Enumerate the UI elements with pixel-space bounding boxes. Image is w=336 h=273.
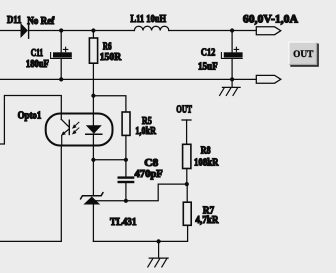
svg-text:D11: D11 — [7, 15, 22, 26]
wire OUT stem to R8 — [186, 120, 188, 144]
wire C12 top lead — [231, 31, 233, 53]
wire bus2 — [0, 78, 232, 80]
svg-text:R8: R8 — [201, 145, 211, 156]
wire opto input loop (left) — [0, 96, 61, 145]
svg-text:No Ref: No Ref — [27, 16, 55, 27]
wire top bus right segment — [169, 30, 256, 32]
node junction LED cathode / feedback — [91, 158, 95, 162]
output arrow bottom — [256, 75, 281, 83]
svg-text:R6: R6 — [103, 41, 112, 52]
svg-text:OUT: OUT — [176, 105, 192, 116]
output arrow top — [256, 27, 281, 35]
wire TL431 anode down — [92, 205, 94, 242]
wire bottom-left rail — [0, 240, 61, 242]
shunt regulator TL431 — [81, 193, 103, 205]
wire C11 bottom lead — [60, 59, 62, 80]
svg-text:C12: C12 — [201, 47, 216, 58]
node junction bus2 / C12 / ground — [230, 77, 234, 81]
ground under C12 — [220, 79, 241, 95]
wire R7 top lead — [186, 184, 188, 202]
svg-text:OUT: OUT — [293, 50, 314, 60]
wire C8 bottom lead — [125, 183, 127, 201]
node junction top bus / C12 — [230, 28, 234, 32]
wire LED cathode down to TL431 — [92, 135, 94, 195]
wire top bus left segment — [0, 30, 21, 32]
svg-text:L11 10uH: L11 10uH — [130, 14, 166, 25]
svg-text:1,0kR: 1,0kR — [135, 126, 156, 137]
wire R6 top lead — [92, 31, 94, 39]
node junction R5 / C8 — [124, 158, 128, 162]
svg-text:Opto1: Opto1 — [18, 110, 42, 121]
inductor L11 — [134, 26, 168, 30]
capacitor C8 — [118, 176, 135, 183]
wire R6 bottom lead to opto LED — [92, 63, 94, 125]
wire OUT tbar — [182, 119, 191, 121]
LED inside Opto1 — [86, 125, 102, 134]
svg-text:R5: R5 — [142, 116, 152, 127]
wire TL431 ref line — [96, 184, 187, 201]
node junction R6 / R5 branch — [91, 94, 95, 98]
wire C8 top lead — [125, 160, 127, 177]
wire C11 top lead — [60, 31, 62, 53]
wire C12 bottom lead — [231, 59, 233, 80]
button OUT — [288, 42, 317, 65]
svg-text:C11: C11 — [31, 48, 44, 59]
svg-text:180uF: 180uF — [26, 59, 49, 70]
optocoupler Opto1 body — [46, 114, 113, 146]
wire R8 bottom lead — [186, 169, 188, 185]
light arrows inside Opto1 — [72, 122, 79, 134]
svg-text:60,0V-1,0A: 60,0V-1,0A — [243, 13, 299, 25]
ground bottom — [148, 241, 168, 267]
phototransistor inside Opto1 — [61, 119, 69, 145]
wire opto emitter down to left bottom rail — [60, 146, 62, 242]
node junction C8 / TL431 ref — [124, 199, 128, 203]
svg-text:C8: C8 — [144, 158, 158, 169]
resistor R8 — [183, 144, 191, 168]
wire top bus middle segment — [29, 30, 135, 32]
node junction bus2 / C11 — [59, 77, 63, 81]
node junction R8 / R7 / ref — [185, 182, 189, 186]
diode D11 — [21, 23, 29, 38]
wire R5 bottom lead — [125, 135, 127, 159]
svg-text:150R: 150R — [100, 52, 122, 63]
node junction top bus / C11 — [59, 28, 63, 32]
wire bottom-right rail — [93, 225, 187, 241]
capacitor C12 — [221, 47, 242, 58]
wire feedback branch horizontal — [93, 159, 126, 161]
svg-text:4,7kR: 4,7kR — [195, 215, 218, 226]
resistor R5 — [122, 112, 130, 135]
wire bus2 to arrow — [232, 78, 256, 80]
capacitor C11 — [51, 47, 72, 58]
svg-text:470pF: 470pF — [135, 169, 163, 180]
svg-text:15uF: 15uF — [198, 61, 218, 72]
resistor R7 — [183, 202, 191, 225]
svg-text:TL431: TL431 — [110, 217, 137, 228]
node junction top bus / R6 — [91, 28, 95, 32]
button OUT shadow — [290, 44, 318, 66]
svg-text:108kR: 108kR — [194, 157, 219, 168]
node junction bottom rail / ground — [157, 239, 161, 243]
wire R5 branch — [93, 96, 126, 112]
resistor R6 — [89, 38, 97, 63]
